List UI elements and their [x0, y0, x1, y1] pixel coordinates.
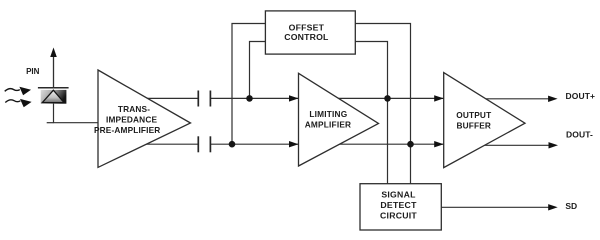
svg-text:OFFSET: OFFSET: [289, 22, 325, 32]
svg-text:DETECT: DETECT: [380, 200, 417, 210]
photodiode D1 (PIN): [38, 88, 69, 104]
arrowhead: DOUT-: [549, 142, 559, 148]
wire: SD output line from signal detect circuit: [441, 206, 550, 208]
wire: bottom differential line limiting amp output to output buffer input: [330, 143, 455, 145]
arrowhead: SD: [548, 204, 558, 210]
svg-text:SD: SD: [565, 201, 577, 211]
svg-text:TRANS-: TRANS-: [118, 104, 150, 114]
svg-text:DOUT-: DOUT-: [566, 130, 593, 140]
capacitor C2 (bottom coupling cap): [198, 136, 210, 152]
svg-text:OUTPUT: OUTPUT: [456, 110, 491, 120]
junction: offset sense on top line: [384, 95, 391, 102]
svg-text:DOUT+: DOUT+: [566, 91, 596, 101]
wire: offset control left feedback vertical to bottom line: [232, 24, 266, 145]
arrowhead: output buffer bottom input: [434, 141, 444, 147]
svg-text:CONTROL: CONTROL: [284, 32, 329, 42]
wire: photodiode anode down and right to TIA input: [54, 103, 99, 123]
arrowhead: limiting amp top input: [289, 95, 299, 101]
wire: stub left of anode corner: [47, 122, 54, 124]
light input arrow 1: [5, 87, 31, 95]
junction: offset feedback on top line: [246, 95, 253, 102]
arrowhead: output buffer top input: [434, 95, 444, 101]
svg-text:AMPLIFIER: AMPLIFIER: [305, 120, 352, 130]
wire: offset control right sense vertical from top line down to signal detect: [355, 42, 388, 185]
svg-text:CIRCUIT: CIRCUIT: [380, 210, 417, 220]
op-amp A3: output buffer: [444, 73, 525, 168]
wire: top differential line TIA output to coupling cap C1: [140, 97, 198, 99]
svg-text:PIN: PIN: [26, 67, 40, 76]
wire: top differential line limiting amp output to output buffer input: [330, 97, 455, 99]
op-amp A1: trans-impedance pre-amplifier: [94, 70, 191, 167]
wire: bottom differential line C2 to limiting amp input: [210, 143, 310, 145]
op-amp A2: limiting amplifier: [299, 73, 379, 166]
svg-text:LIMITING: LIMITING: [309, 109, 347, 119]
svg-text:BUFFER: BUFFER: [457, 120, 492, 130]
light input arrow 2: [5, 99, 31, 107]
arrowhead: DOUT+: [548, 96, 558, 102]
junction: offset feedback on bottom line: [229, 141, 236, 148]
wire: offset control right sense vertical from bottom line down to signal detect: [355, 24, 411, 185]
block: OFFSET CONTROL: [265, 11, 355, 54]
wire: DOUT+ output line: [470, 98, 550, 100]
block: SIGNAL DETECT CIRCUIT: [360, 184, 441, 230]
arrowhead: limiting amp bottom input: [289, 141, 299, 147]
wire: bottom differential line TIA output to coupling cap C2: [140, 143, 198, 145]
svg-text:IMPEDANCE: IMPEDANCE: [106, 114, 157, 124]
svg-text:PRE-AMPLIFIER: PRE-AMPLIFIER: [94, 125, 160, 135]
capacitor C1 (top coupling cap): [198, 91, 210, 107]
wire: photodiode bias line with up arrow: [50, 48, 57, 89]
wire: offset control left feedback vertical to top line: [250, 42, 267, 99]
wire: top differential line C1 to limiting amp input: [210, 97, 310, 99]
junction: offset sense on bottom line: [407, 141, 414, 148]
wire: DOUT- output line: [470, 144, 550, 146]
svg-text:SIGNAL: SIGNAL: [381, 189, 416, 199]
